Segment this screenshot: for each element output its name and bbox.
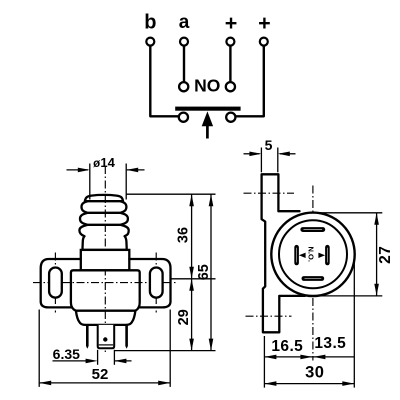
svg-text:N.O.: N.O.	[307, 246, 316, 261]
svg-text:NO: NO	[194, 76, 220, 96]
svg-text:65: 65	[196, 264, 212, 280]
svg-text:52: 52	[92, 366, 109, 383]
svg-text:16.5: 16.5	[271, 338, 303, 355]
svg-text:27: 27	[377, 246, 394, 264]
svg-text:13.5: 13.5	[314, 335, 346, 352]
svg-text:30: 30	[305, 364, 324, 382]
svg-text:ø: ø	[93, 158, 100, 170]
svg-text:5: 5	[265, 137, 273, 153]
svg-text:14: 14	[100, 155, 115, 170]
svg-text:6.35: 6.35	[53, 346, 80, 362]
svg-text:+: +	[225, 11, 238, 35]
svg-text:b: b	[144, 11, 156, 33]
svg-text:a: a	[179, 12, 190, 33]
svg-text:29: 29	[176, 309, 192, 325]
svg-text:36: 36	[176, 227, 192, 243]
svg-text:+: +	[258, 11, 271, 35]
